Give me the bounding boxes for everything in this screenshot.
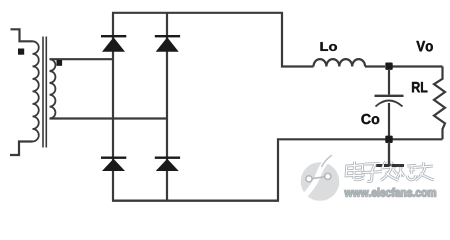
node A junction: [385, 63, 392, 70]
watermark logo: [301, 155, 340, 201]
watermark text dian: [346, 162, 364, 180]
transformer secondary winding: [50, 59, 56, 118]
wire node B to ground: [388, 142, 390, 165]
diode D2: [156, 37, 179, 52]
wire node B to ground (over watermark): [388, 142, 390, 165]
bridge right rail: [166, 13, 168, 201]
watermark text shao: [397, 165, 416, 180]
watermark text you: [415, 162, 434, 180]
node B junction: [385, 136, 392, 143]
wire secondary top to bridge: [50, 58, 114, 60]
diode D1: [102, 37, 125, 52]
primary polarity dot: [18, 49, 24, 55]
wire node A to capacitor Co: [388, 70, 390, 95]
diode D4 cathode bar: [155, 157, 180, 159]
transformer primary winding: [33, 41, 39, 141]
wire Lo to node A: [365, 65, 385, 67]
watermark text zi: [362, 163, 382, 181]
secondary polarity dot: [57, 60, 63, 66]
inductor Lo: [314, 59, 366, 66]
bridge top rail: [112, 12, 283, 14]
wire secondary bottom to bridge: [50, 117, 168, 119]
diode D1 cathode bar: [101, 35, 126, 37]
diode D2 cathode bar: [155, 35, 180, 37]
wire bottom output: [278, 139, 443, 200]
ground bar (over watermark, broken by glyphs): [376, 164, 404, 167]
bridge left rail: [112, 13, 114, 201]
label RL: [412, 82, 427, 92]
wire primary top lead: [11, 29, 33, 41]
wire node A to RL top: [392, 65, 443, 67]
diode D4: [156, 159, 179, 171]
capacitor Co curved plate: [376, 101, 403, 107]
wire primary bottom lead: [10, 142, 33, 156]
capacitor Co top plate: [375, 95, 404, 97]
diode D3: [102, 159, 125, 171]
transformer core: [43, 37, 46, 148]
watermark text fa: [380, 162, 398, 181]
wire Co to node B: [388, 103, 390, 136]
label Lo: [321, 42, 337, 51]
watermark text www.elecfans.com: [345, 188, 436, 197]
label Co: [361, 114, 379, 124]
resistor RL: [434, 67, 445, 140]
wire bridge output top: [282, 13, 314, 67]
diode D3 cathode bar: [101, 157, 126, 159]
label Vo: [416, 41, 432, 51]
ground bar: [376, 164, 404, 167]
bridge bottom rail: [112, 199, 279, 201]
